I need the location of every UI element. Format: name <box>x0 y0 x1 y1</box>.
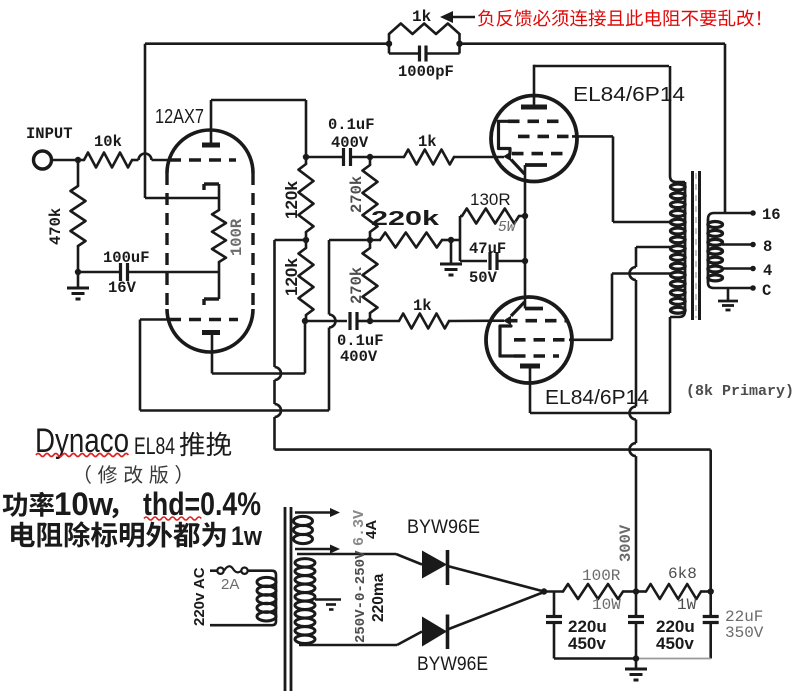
ground 220k node <box>450 240 453 264</box>
tube 12AX7 envelope <box>167 130 253 173</box>
wire mains top lead <box>210 569 218 572</box>
grid1 bracket lower EL84 <box>500 326 514 356</box>
svg-text:270k: 270k <box>348 176 366 213</box>
svg-text:100R: 100R <box>582 567 621 585</box>
wire psu bottom rail <box>554 657 637 660</box>
resistor 1k lower <box>399 314 449 329</box>
svg-text:270k: 270k <box>348 267 366 304</box>
ground input stage <box>77 272 80 288</box>
ground C tap <box>727 288 730 301</box>
svg-text:0.1uF: 0.1uF <box>328 116 375 134</box>
tap 16 dot <box>750 210 756 216</box>
wire HT lower lead <box>299 644 397 647</box>
screen tap wire lower (UL) <box>569 338 612 341</box>
svg-text:thd=0.4%: thd=0.4% <box>143 486 261 522</box>
svg-text:10k: 10k <box>94 133 122 151</box>
capacitor 220u-1 <box>553 592 556 617</box>
svg-text:16V: 16V <box>108 279 137 297</box>
svg-text:EL84: EL84 <box>134 433 175 460</box>
tap 4 line <box>722 267 753 270</box>
tap C line <box>708 283 753 288</box>
wire grid return vertical <box>328 240 331 315</box>
svg-text:50V: 50V <box>469 269 498 287</box>
wire mains bottom lead <box>210 624 272 627</box>
svg-text:450v: 450v <box>656 634 694 653</box>
node rectifier output <box>541 588 547 594</box>
resistor 10k <box>84 153 132 168</box>
node 220k right <box>448 237 454 243</box>
wire heater bottom lead <box>295 548 331 551</box>
svg-text:350V: 350V <box>725 624 764 642</box>
wire heater top lead <box>295 511 331 514</box>
svg-text:400V: 400V <box>331 134 369 152</box>
OPT primary top lead <box>670 66 685 182</box>
wire B+ riser left <box>273 240 276 367</box>
ground center tap <box>326 603 336 606</box>
tap 16 line <box>708 213 753 219</box>
svg-text:1w: 1w <box>231 521 263 551</box>
svg-text:47uF: 47uF <box>469 240 506 258</box>
resistor 470k <box>77 160 80 186</box>
wire feedback to output tap <box>460 42 726 45</box>
wire V1a plate to node <box>211 99 306 102</box>
grid2 dashes lower EL84 <box>514 338 569 342</box>
node preamp B+ <box>708 588 714 594</box>
node 270k upper top <box>367 154 373 160</box>
svg-text:400V: 400V <box>340 348 378 366</box>
wire hop grid over feedback <box>139 154 152 161</box>
resistor R-FB 1k (feedback) <box>388 34 391 44</box>
OPT secondary winding <box>707 219 710 283</box>
svg-text:1000pF: 1000pF <box>398 63 454 81</box>
resistor 130R 5W <box>459 216 462 261</box>
cathode V1b <box>204 297 219 300</box>
wire 220k line corner <box>329 239 380 242</box>
wire B+ center tap jog <box>636 246 671 249</box>
red squiggle under Dynaco <box>36 454 128 457</box>
node feedback network right <box>456 41 462 47</box>
wire to 1k upper <box>370 156 404 159</box>
wire V1b grid out <box>140 318 168 321</box>
wire diode lower out <box>448 592 545 630</box>
wire diode upper out <box>448 566 545 592</box>
wire to bias network <box>451 239 460 242</box>
ground psu <box>635 659 638 670</box>
wire V1b plate to coupling node <box>212 372 305 375</box>
fuse 2A <box>217 568 223 574</box>
node B+ main <box>633 588 639 594</box>
wire to 1k lower <box>370 320 399 323</box>
tube EL84 lower envelope <box>486 297 572 383</box>
cathode lead diagonal lower <box>511 302 525 316</box>
OPT core <box>691 171 694 320</box>
grid1 dashes upper EL84 <box>508 120 563 124</box>
wire rect node <box>544 590 563 593</box>
svg-text:10W: 10W <box>592 596 621 614</box>
grid1 dashes lower EL84 <box>506 319 566 323</box>
plate EL84 upper <box>521 105 547 110</box>
label （修改版） <box>86 465 181 484</box>
node 120k junction <box>303 237 309 243</box>
label 推挽 <box>180 432 231 456</box>
svg-text:2A: 2A <box>221 576 239 593</box>
node 220k line left <box>367 237 373 243</box>
svg-text:1k: 1k <box>418 133 437 151</box>
label 电阻除标明外都为 row <box>11 521 226 547</box>
resistor 100R 10W <box>563 584 623 599</box>
svg-text:10w: 10w <box>54 486 113 522</box>
svg-text:1k: 1k <box>412 8 432 26</box>
svg-text:6k8: 6k8 <box>668 565 697 583</box>
PT core <box>284 507 287 691</box>
arrow annotation pointer <box>440 11 453 23</box>
svg-text:C: C <box>762 282 771 300</box>
cathode lead diagonal upper <box>511 160 525 175</box>
capacitor 100uF <box>119 263 122 281</box>
capacitor C-FB 1000pF <box>388 44 391 54</box>
plate V1b <box>202 330 220 335</box>
node cathode bottom <box>522 258 528 264</box>
svg-text:1W: 1W <box>677 596 697 614</box>
svg-text:4: 4 <box>763 262 772 280</box>
svg-text:470k: 470k <box>47 208 65 245</box>
svg-text:12AX7: 12AX7 <box>155 106 204 128</box>
node cathode top <box>522 213 528 219</box>
svg-text:EL84/6P14: EL84/6P14 <box>573 84 685 106</box>
grid3 dashes upper EL84 <box>512 152 563 156</box>
svg-text:220v AC: 220v AC <box>191 567 208 626</box>
capacitor 0.1uF upper <box>306 156 343 159</box>
wire mains top to coil <box>248 569 273 572</box>
node lower coupling 270k <box>367 318 373 324</box>
svg-text:120k: 120k <box>282 258 301 296</box>
grid1 arrow lower EL84 <box>503 316 511 326</box>
grid2 dashes upper EL84 <box>518 135 572 139</box>
wire preamp B+ drop <box>709 450 712 592</box>
svg-text:250V-0-250V: 250V-0-250V <box>353 550 369 643</box>
resistor 120k lower <box>305 240 308 248</box>
resistor 270k lower <box>369 240 372 248</box>
svg-text:300V: 300V <box>617 524 635 562</box>
label red warning text <box>478 10 760 27</box>
node V1a plate <box>303 154 309 160</box>
wire input to node <box>52 159 85 162</box>
svg-text:16: 16 <box>762 206 781 224</box>
node rail ground <box>633 655 639 661</box>
wire grid return bottom <box>140 409 329 412</box>
capacitor 220u-2 <box>635 592 638 617</box>
svg-text:220k: 220k <box>371 208 440 230</box>
tap 8 dot <box>750 242 756 248</box>
node feedback network left <box>386 41 392 47</box>
diode BYW96E lower <box>422 617 447 647</box>
wire HT upper lead <box>297 553 396 556</box>
svg-text:100uF: 100uF <box>103 249 150 267</box>
svg-text:8: 8 <box>763 238 772 256</box>
PT HT winding 250-0-250 <box>295 559 315 567</box>
label 功率 row <box>3 492 54 517</box>
svg-text:220ma: 220ma <box>370 573 387 622</box>
svg-text:4A: 4A <box>363 520 380 539</box>
OPT primary bottom jog <box>670 311 685 317</box>
wire B+ vertical 300V <box>635 247 638 267</box>
grid V1b (dashed) <box>169 318 238 321</box>
tap 4 dot <box>750 266 756 272</box>
node ground/cap junction <box>75 269 81 275</box>
resistor 120k upper <box>305 157 308 164</box>
svg-text:BYW96E: BYW96E <box>407 516 480 538</box>
svg-text:1k: 1k <box>413 297 432 315</box>
svg-text:5W: 5W <box>498 220 517 236</box>
svg-text:450v: 450v <box>568 634 606 653</box>
cathode upper EL84 <box>525 163 547 167</box>
grid3 dashes lower EL84 <box>514 354 559 358</box>
tap C dot <box>750 285 756 291</box>
wire B+ branch to 120k <box>275 239 307 242</box>
node input/grid <box>75 157 81 163</box>
red squiggle under thd <box>144 517 201 520</box>
resistor 220k <box>380 233 442 248</box>
OPT primary winding <box>684 182 687 311</box>
screen tap wire upper (UL) <box>572 135 613 138</box>
svg-text:BYW96E: BYW96E <box>417 653 488 675</box>
resistor 1k upper <box>404 150 454 165</box>
PT primary winding 220v <box>257 577 276 586</box>
plate EL84 lower <box>520 364 540 369</box>
capacitor 22uF 350V <box>709 592 712 617</box>
wire top rail <box>534 65 669 68</box>
resistor 270k upper <box>369 157 372 165</box>
cathode V1a <box>202 184 205 190</box>
capacitor 47uF 50V <box>460 260 487 263</box>
wire to 100uF <box>78 271 120 274</box>
tap 8 line <box>722 243 753 246</box>
svg-text:120k: 120k <box>282 181 301 219</box>
wire shared cathode line <box>524 165 527 309</box>
PT heater winding 6.3V <box>294 516 313 525</box>
svg-text:100R: 100R <box>228 218 246 256</box>
capacitor 0.1uF lower <box>305 320 347 323</box>
resistor 6k8 1W <box>636 590 646 593</box>
svg-text:(8k Primary): (8k Primary) <box>686 384 794 400</box>
wire OPT primary bottom lead <box>530 412 670 415</box>
wire feedback vertical to 12AX7 cathode <box>144 44 147 198</box>
tube EL84 upper envelope <box>491 96 577 182</box>
input jack <box>34 151 52 169</box>
diode BYW96E upper <box>422 551 447 579</box>
grid V1a (dashed) <box>169 158 236 161</box>
cathode lower EL84 <box>525 307 543 311</box>
svg-text:INPUT: INPUT <box>26 125 73 143</box>
svg-text:130R: 130R <box>470 190 511 209</box>
wire preamp B+ line <box>275 448 711 451</box>
wire HT center tap <box>315 598 341 601</box>
resistor 100R cathode <box>212 210 226 262</box>
grid1 bracket upper EL84 <box>499 121 513 154</box>
plate V1a <box>202 143 220 148</box>
node V1b coupling <box>302 318 308 324</box>
wire feedback top-left segment <box>145 42 389 45</box>
